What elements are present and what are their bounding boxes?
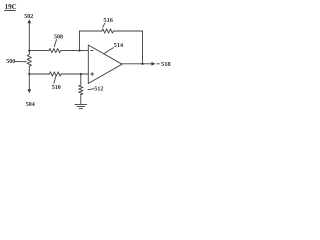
svg-text:19C: 19C [5, 3, 17, 11]
leader 516 [103, 23, 105, 27]
leader 508 [54, 40, 56, 47]
svg-text:514: 514 [114, 42, 123, 49]
op-amp U514 triangle [88, 45, 122, 84]
wire op-amp output [122, 63, 152, 65]
junction node at R512 top [80, 73, 82, 75]
junction node at 500/510/504 [28, 73, 30, 75]
op-amp plus sign [91, 73, 94, 76]
ground symbol [75, 103, 87, 105]
resistor R510 zigzag [50, 72, 62, 76]
leader 518 [157, 63, 160, 65]
svg-text:510: 510 [52, 85, 61, 91]
wire feedback tap vertical [79, 31, 81, 51]
op-amp minus sign [91, 50, 94, 52]
svg-text:512: 512 [94, 87, 103, 93]
wire inverting input line right segment [61, 50, 89, 52]
resistor R516 zigzag [102, 29, 114, 33]
leader 500 [15, 60, 27, 62]
svg-text:504: 504 [26, 102, 35, 108]
leader 514 [104, 48, 113, 54]
wire R512 top lead [80, 74, 82, 85]
arrowhead 502 up [27, 19, 31, 23]
svg-text:508: 508 [54, 35, 63, 41]
junction node feedback tap [78, 49, 80, 51]
wire noninverting input line left segment [29, 73, 49, 75]
resistor R508 zigzag [49, 49, 61, 53]
junction node at output/feedback [141, 63, 143, 65]
wire 502 input vertical [28, 22, 30, 50]
wire 504 output vertical [28, 74, 30, 90]
junction node at 502/500/508 [28, 49, 30, 51]
wire R512 bottom lead [80, 95, 82, 105]
svg-text:502: 502 [24, 14, 33, 20]
resistor R500 zigzag vertical [27, 51, 31, 74]
svg-text:518: 518 [161, 61, 171, 68]
wire feedback top horizontal right [113, 30, 142, 32]
arrowhead 504 down [27, 89, 31, 93]
wire feedback top horizontal left [80, 30, 102, 32]
arrowhead 518 right [151, 62, 155, 66]
wire feedback right vertical [142, 31, 144, 64]
resistor R512 zigzag vertical [79, 85, 83, 95]
leader 510 [54, 77, 56, 84]
leader 512 [88, 89, 94, 90]
svg-text:500: 500 [6, 59, 15, 65]
wire inverting input line left segment [29, 50, 49, 52]
svg-text:516: 516 [103, 17, 113, 24]
wire noninverting input line right segment [61, 73, 88, 75]
